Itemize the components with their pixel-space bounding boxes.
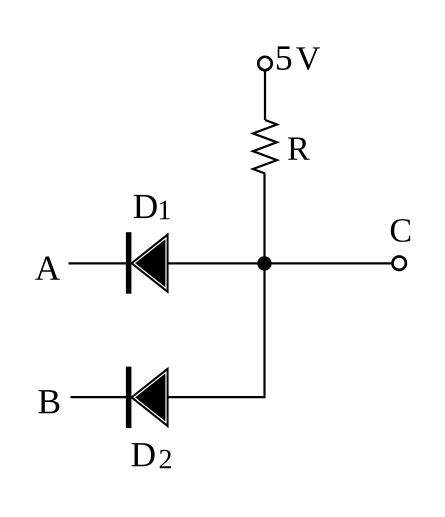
label A	[35, 257, 60, 280]
label D1	[134, 195, 157, 218]
wire: diode D1 to node	[168, 262, 265, 264]
wire: input B to diode D2	[71, 396, 129, 398]
diode D1	[126, 232, 169, 294]
cathode bar	[126, 367, 131, 429]
cathode bar	[126, 232, 131, 294]
label C	[391, 219, 410, 242]
resistor R	[253, 120, 277, 174]
label R	[288, 138, 310, 160]
node (junction dot)	[257, 256, 271, 270]
label B	[39, 390, 60, 413]
wire: resistor bottom through node down and left to diode D2	[168, 174, 265, 398]
label 5V	[277, 46, 291, 70]
label D2	[132, 443, 155, 466]
wire: 5V terminal to resistor R	[264, 71, 266, 120]
anode triangle (black with white inset outline)	[130, 367, 169, 428]
terminal 5V (open circle)	[258, 57, 271, 70]
diode D2	[126, 367, 169, 429]
terminal C (open circle)	[393, 257, 406, 270]
wire: input A to diode D1	[69, 262, 129, 264]
anode triangle (black with white inset outline)	[130, 233, 169, 294]
wire: node to output terminal C	[265, 262, 393, 264]
